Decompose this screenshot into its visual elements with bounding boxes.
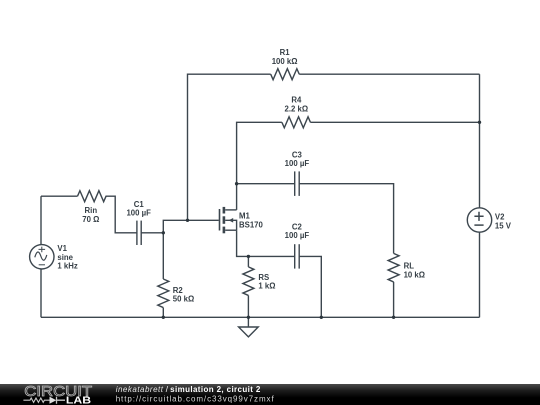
transistor M1 [220,207,237,233]
svg-text:R4: R4 [291,95,302,104]
ground [239,317,259,337]
svg-text:C1: C1 [134,200,145,209]
svg-text:1 kHz: 1 kHz [57,262,77,271]
wire source to C2 [237,230,295,256]
junction node RS/source [247,255,250,258]
svg-text:50 kΩ: 50 kΩ [173,295,194,304]
wire V1 top [40,196,42,244]
logo doodle diode [50,397,57,404]
logo doodle wire [23,398,49,402]
svg-text:RL: RL [404,262,415,271]
resistor R1 [271,69,300,80]
wire C2 right [299,256,321,317]
svg-text:10 kΩ: 10 kΩ [404,270,425,279]
wire R1 right to right rail [299,73,479,75]
junction node gate/R1 [186,219,189,222]
svg-text:V1: V1 [57,244,67,253]
svg-text:100 µF: 100 µF [126,209,151,218]
wire R4 right [310,121,479,123]
svg-text:100 µF: 100 µF [285,159,310,168]
svg-text:70 Ω: 70 Ω [82,215,99,224]
wire RL bottom [393,282,395,317]
svg-text:2.2 kΩ: 2.2 kΩ [285,104,309,113]
capacitor C2 [295,244,300,268]
svg-text:M1: M1 [239,211,250,220]
wire Rin left [41,195,78,197]
svg-text:15 V: 15 V [495,221,512,230]
svg-text:V2: V2 [495,212,505,221]
junction node R2/ground rail [162,316,165,319]
wire RS top [247,256,249,267]
svg-text:sine: sine [57,253,73,262]
wire R4 left leg down to drain [237,122,282,210]
junction node R4/right rail [478,121,481,124]
source V1 [30,245,54,269]
wire C1 to R2 [162,233,164,279]
source V2 [467,208,491,232]
wire V1 bottom [40,269,42,317]
svg-text:LAB: LAB [66,396,91,405]
wire C3 right to RL [299,184,393,254]
resistor RL [388,253,399,282]
wire C3 left [237,183,295,185]
svg-text:C2: C2 [292,222,303,231]
svg-text:100 kΩ: 100 kΩ [272,57,298,66]
footer bar [0,384,540,405]
resistor Rin [78,191,107,202]
capacitor C3 [295,171,300,196]
resistor R2 [158,279,169,308]
wire V2 bottom [479,232,481,317]
svg-text:R1: R1 [280,48,291,57]
junction node C3/drain [235,182,238,185]
wire R1 left leg [188,74,271,220]
wire gate [163,220,219,233]
resistor RS [243,267,254,296]
wire bottom rail [41,316,480,318]
svg-text:C3: C3 [292,150,303,159]
svg-text:http://circuitlab.com/c33vq99v: http://circuitlab.com/c33vq99v7zmxf [116,395,275,404]
wire RS bottom [247,295,249,317]
junction node C1/gate [162,231,165,234]
svg-text:BS170: BS170 [239,221,264,230]
capacitor C1 [137,221,141,245]
svg-text:inekatabrett / simulation 2, c: inekatabrett / simulation 2, circuit 2 [116,385,261,394]
wire C1 right [141,232,163,234]
wire R2 bottom [162,308,164,318]
resistor R4 [282,117,311,128]
svg-text:100 µF: 100 µF [285,231,310,240]
junction node ground [247,316,250,319]
wire right rail top (R1 to V2) [479,74,481,208]
wire Rin right down to C1 [106,196,137,233]
junction node C2/ground rail [320,316,323,319]
junction node RL/ground rail [392,316,395,319]
svg-text:1 kΩ: 1 kΩ [258,282,275,291]
